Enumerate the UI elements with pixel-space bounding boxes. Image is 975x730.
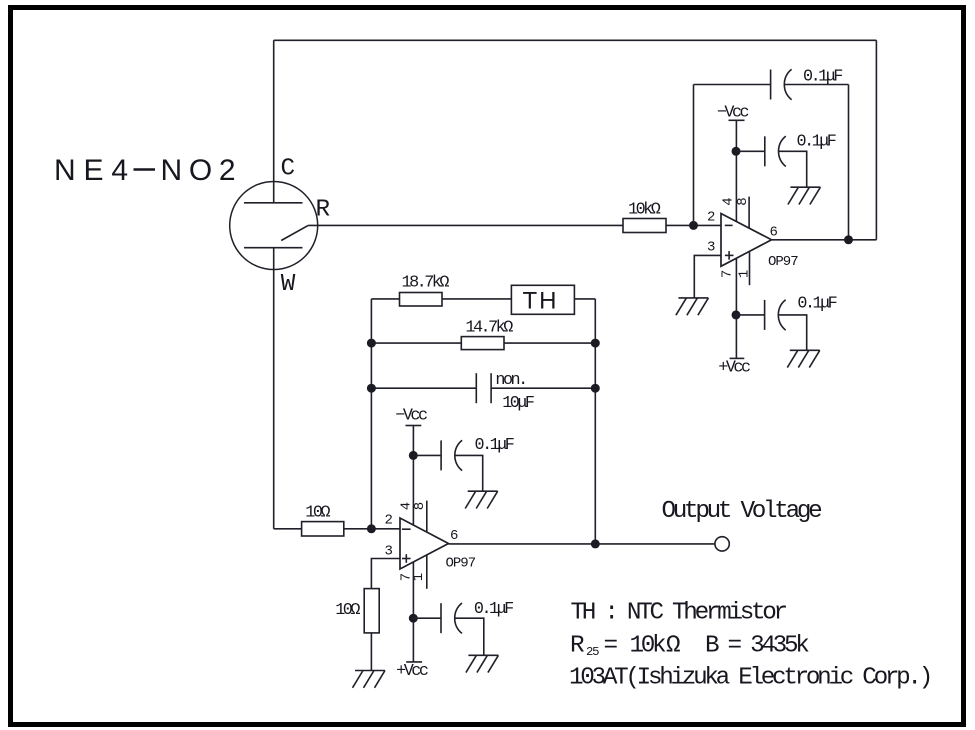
node: op1 inverting junction bbox=[689, 221, 698, 230]
wire: pin 8 stub (U1) bbox=[748, 197, 750, 229]
power +Vcc (U2) bbox=[396, 662, 428, 681]
svg-text:6: 6 bbox=[450, 528, 458, 544]
wire: pin 3 to ground resistor (U2) bbox=[371, 559, 400, 671]
pin label 4 (U1) bbox=[721, 197, 737, 205]
pin label 7 (U2) bbox=[399, 573, 415, 581]
capacitor C1 0.1uF bbox=[771, 69, 792, 99]
node: -Vcc decoupling junction bbox=[732, 147, 741, 156]
svg-text:18.7kΩ: 18.7kΩ bbox=[402, 273, 450, 292]
node: row2 right junction bbox=[591, 339, 600, 348]
label 0.1uF (C3) bbox=[797, 294, 836, 313]
svg-text:OP97: OP97 bbox=[768, 254, 798, 270]
svg-text:10k: 10k bbox=[630, 633, 667, 660]
terminal label C bbox=[281, 156, 295, 183]
label 0.1uF (C1) bbox=[803, 68, 842, 87]
wire: op1 output row bbox=[772, 239, 877, 241]
wire: pin 8 stub (U2) bbox=[426, 501, 428, 533]
wire: -Vcc stem / pin 4 (op2) bbox=[412, 426, 414, 526]
pin label 6 (U2) bbox=[450, 528, 458, 544]
svg-text:+Vcc: +Vcc bbox=[718, 359, 750, 378]
svg-text:TH: TH bbox=[523, 288, 559, 315]
wire: feedback branch left vertical bbox=[693, 85, 695, 226]
wire: sensor W stem bbox=[273, 248, 275, 529]
ground (C5) bbox=[466, 655, 499, 672]
resistor 10ohm (input) bbox=[302, 522, 344, 536]
svg-text:2: 2 bbox=[385, 512, 393, 528]
wire: cap C3 left lead bbox=[736, 314, 765, 316]
sensor NE4-NO2 body bbox=[230, 182, 318, 270]
svg-text:103AT(Ishizuka Electronic Corp: 103AT(Ishizuka Electronic Corp.) bbox=[569, 665, 930, 692]
terminal label W bbox=[281, 271, 296, 298]
svg-text:0.1μF: 0.1μF bbox=[475, 436, 514, 455]
wire: feedback row 3 right lead bbox=[491, 387, 595, 389]
wire: cap C3 right lead bbox=[779, 315, 807, 350]
pin label 2 (U2) bbox=[385, 512, 393, 528]
wire: cap C4 right lead bbox=[455, 455, 483, 491]
node: +Vcc decoupling junction (U1) bbox=[732, 310, 741, 319]
power -Vcc (op2) bbox=[395, 407, 427, 426]
label NE4-NO2 bbox=[54, 154, 236, 187]
op-amp U1 OP97 bbox=[721, 214, 772, 267]
pin label 8 (U1) bbox=[735, 197, 751, 205]
output terminal bbox=[715, 537, 729, 551]
node: output junction bbox=[591, 539, 600, 548]
node: -Vcc decoupling junction (op2) bbox=[409, 451, 418, 460]
power +Vcc (U1) bbox=[718, 358, 750, 377]
capacitor C3 0.1uF bbox=[765, 300, 786, 330]
thermistor TH box bbox=[511, 285, 574, 314]
wire: cap C4 left lead bbox=[413, 454, 441, 456]
wire: pin 1 stub (U2) bbox=[426, 555, 428, 589]
wire: cap C5 right lead bbox=[455, 618, 484, 655]
wire: feedback row 3 left lead bbox=[371, 387, 476, 389]
svg-text:7: 7 bbox=[719, 270, 735, 278]
pin label 1 (U2) bbox=[411, 573, 427, 581]
wire: top rail bbox=[274, 39, 877, 41]
note line 3: 103AT(Ishizuka Electronic Corp.) bbox=[569, 665, 930, 692]
resistor 14.7kOhm bbox=[461, 337, 504, 350]
svg-text:2: 2 bbox=[707, 210, 715, 226]
label 18.7kOhm bbox=[402, 273, 450, 292]
label 10uF bbox=[502, 394, 534, 413]
svg-text:−Vcc: −Vcc bbox=[395, 407, 427, 426]
pin label 8 (U2) bbox=[412, 502, 428, 510]
capacitor C2 0.1uF bbox=[765, 136, 786, 166]
wire: cap C5 left lead bbox=[413, 617, 441, 619]
svg-text:6: 6 bbox=[770, 225, 778, 241]
capacitor C5 0.1uF bbox=[441, 603, 462, 633]
svg-text:+Vcc: +Vcc bbox=[396, 662, 428, 681]
node: row2 left junction bbox=[367, 339, 376, 348]
svg-text:25: 25 bbox=[586, 645, 599, 659]
wire: -Vcc stem / pin 4 (op1) bbox=[735, 120, 737, 222]
label non. bbox=[495, 371, 525, 390]
wire: pin 7 to +Vcc (U2) bbox=[412, 562, 414, 662]
wire: right feedback drop bbox=[875, 40, 877, 240]
svg-text:10kΩ: 10kΩ bbox=[628, 200, 661, 219]
svg-text:3: 3 bbox=[707, 240, 715, 256]
svg-text:NE4: NE4 bbox=[54, 154, 128, 187]
pin label 3 (U2) bbox=[385, 544, 393, 560]
label 0.1uF (C5) bbox=[474, 600, 513, 619]
pin label 1 (U1) bbox=[736, 270, 752, 278]
capacitor 10uF non-polar bbox=[476, 373, 491, 403]
ground (U1 pin3) bbox=[676, 298, 709, 315]
svg-text:3: 3 bbox=[385, 544, 393, 560]
node: row3 left junction bbox=[367, 384, 376, 393]
node: row3 right junction bbox=[591, 384, 600, 393]
label 10kOhm bbox=[628, 200, 661, 219]
wire: op2 output row bbox=[449, 543, 715, 545]
svg-text:0.1μF: 0.1μF bbox=[797, 294, 836, 313]
ground (C4) bbox=[465, 491, 498, 508]
svg-text:Output Voltage: Output Voltage bbox=[662, 498, 822, 525]
wire: cap C2 left lead bbox=[736, 150, 765, 152]
wire: feedback row 2 bbox=[371, 342, 595, 344]
wire: 10ohm row to op2 inverting input bbox=[274, 528, 400, 530]
wire: pin 1 stub (U1) bbox=[749, 252, 751, 285]
wire: op2 feedback right vertical bbox=[594, 299, 596, 544]
wire: pin 3 to ground (U1) bbox=[694, 255, 721, 298]
svg-text:OP97: OP97 bbox=[446, 555, 476, 571]
power -Vcc (op1) bbox=[717, 104, 749, 123]
pin label 6 (U1) bbox=[770, 225, 778, 241]
wire: feedback row 1 bbox=[371, 298, 595, 300]
wire: cap C1 left lead bbox=[694, 84, 771, 86]
note line 2: R25 = 10kOhm B = 3435k bbox=[570, 633, 809, 660]
pin label 7 (U1) bbox=[719, 270, 735, 278]
wire: R terminal to op1 inverting input bbox=[308, 224, 721, 226]
ground (C2) bbox=[788, 187, 821, 204]
svg-text:TH : NTC Thermistor: TH : NTC Thermistor bbox=[571, 600, 787, 627]
op-amp U2 OP97 bbox=[400, 518, 449, 569]
ground (10ohm leg) bbox=[353, 671, 386, 688]
svg-text:0.1μF: 0.1μF bbox=[474, 600, 513, 619]
pin label 4 (U2) bbox=[399, 502, 415, 510]
svg-text:8: 8 bbox=[412, 502, 428, 510]
svg-text:10Ω: 10Ω bbox=[305, 503, 330, 522]
resistor 18.7kOhm bbox=[400, 293, 443, 307]
pin label 3 (U1) bbox=[707, 240, 715, 256]
label Output Voltage bbox=[662, 498, 822, 525]
wire: feedback branch right vertical bbox=[848, 85, 850, 240]
label 0.1uF (C4) bbox=[475, 436, 514, 455]
svg-text:0.1μF: 0.1μF bbox=[797, 133, 836, 152]
wire: pin 7 to +Vcc (U1) bbox=[735, 258, 737, 358]
wire: cap C1 right lead bbox=[785, 84, 849, 86]
wire: sensor C stem to top rail bbox=[273, 40, 275, 203]
pin label 2 (U1) bbox=[707, 210, 715, 226]
svg-text:NO2: NO2 bbox=[161, 154, 236, 187]
resistor 10ohm (ground leg) bbox=[364, 589, 379, 633]
svg-text:14.7kΩ: 14.7kΩ bbox=[465, 318, 513, 337]
svg-text:10μF: 10μF bbox=[502, 394, 534, 413]
node: op2 inverting junction bbox=[367, 524, 376, 533]
svg-text:non.: non. bbox=[495, 371, 525, 390]
terminal label R bbox=[316, 197, 330, 224]
label 0.1uF (C2) bbox=[797, 133, 836, 152]
svg-text:10Ω: 10Ω bbox=[335, 601, 360, 620]
note line 1: TH : NTC Thermistor bbox=[571, 600, 787, 627]
node: op1 output junction bbox=[844, 235, 853, 244]
node: +Vcc decoupling junction (U2) bbox=[409, 614, 418, 623]
resistor 10kOhm bbox=[623, 219, 666, 233]
svg-text:B = 3435k: B = 3435k bbox=[705, 633, 809, 660]
label 10ohm (ground leg) bbox=[335, 601, 360, 620]
label 10ohm (input) bbox=[305, 503, 330, 522]
capacitor C4 0.1uF bbox=[441, 440, 462, 470]
label 14.7kOhm bbox=[465, 318, 513, 337]
wire: cap C2 right lead bbox=[779, 151, 807, 187]
label OP97 (U2) bbox=[446, 555, 476, 571]
label OP97 (U1) bbox=[768, 254, 798, 270]
ground (C3) bbox=[787, 350, 820, 367]
wire: op2 feedback left vertical bbox=[370, 299, 372, 529]
